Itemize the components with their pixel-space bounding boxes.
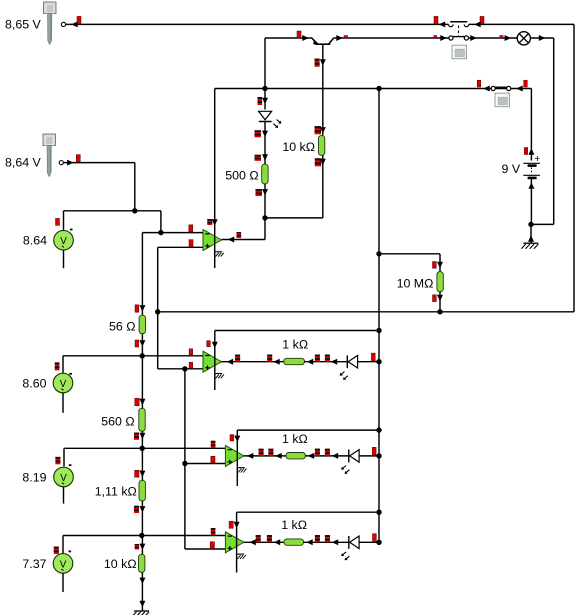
wire from W3 corner down to battery B1 positive: [524, 89, 534, 161]
wire node B2 vertical x=184.9 from U2 + row down to U4 + corner: [182, 369, 187, 549]
svg-text:7.37: 7.37: [22, 557, 46, 571]
resistor R2 10 kilohm: [318, 136, 324, 156]
label 10 Mohm: [397, 277, 434, 291]
wire to op-amp U3 non-inverting input: [185, 456, 226, 463]
wire from R2 down and left to node A: [265, 155, 326, 218]
wire op-amp U1 non-inverting input from node B: [158, 240, 203, 248]
LED D1 light arrows: [273, 120, 281, 128]
label 1,11 kohm: [95, 484, 137, 498]
svg-text:V: V: [60, 379, 67, 390]
wire from lamp L1 to right corner: [530, 35, 553, 41]
op-amp U3: [225, 430, 379, 466]
resistor R8 1 kilohm: [284, 358, 305, 364]
svg-text:8,65 V: 8,65 V: [5, 18, 42, 32]
label 8.19: [22, 470, 46, 484]
voltmeter M3: [54, 467, 74, 487]
switch S1 link (dashed): [458, 26, 460, 37]
svg-text:9 V: 9 V: [502, 162, 521, 176]
wire node A down to op-amp U1 output: [222, 218, 266, 243]
resistor R9 1 kilohm: [286, 453, 305, 459]
label 560 ohm: [101, 414, 134, 428]
wire W1 vertical right edge down to node row: [573, 24, 575, 311]
wire from Q1 collector to switch S1 contact B: [334, 35, 449, 41]
label 10 kohm (R7): [104, 557, 137, 571]
svg-text:V: V: [60, 473, 67, 484]
wire W2 emitter row from LED branch corner to transistor Q1: [265, 31, 312, 41]
svg-text:10 MΩ: 10 MΩ: [397, 277, 434, 291]
resistor R10 1 kilohm: [284, 539, 304, 545]
voltmeter M4 bottom stub: [62, 573, 64, 592]
wire from R1 down to node A junction: [256, 184, 269, 221]
resistor R4 56 ohm: [139, 315, 145, 334]
push switch S1 contact B (closed): [449, 36, 469, 40]
wire chain node2 to voltmeter M2: [55, 356, 142, 375]
voltmeter M1: [54, 230, 74, 250]
wire from R5 to chain node 3: [134, 431, 145, 451]
resistor R1 500 ohm: [262, 164, 268, 184]
push switch S2 (closed): [477, 80, 527, 91]
label 500 ohm: [225, 169, 258, 183]
op-amp U4: [225, 512, 379, 553]
op-amp U4 negative supply stub and mini ground: [237, 553, 246, 573]
probe P2 (8,64 V test probe): [43, 134, 56, 177]
svg-text:56 Ω: 56 Ω: [109, 319, 136, 333]
voltmeter M2 bottom stub: [62, 393, 64, 413]
svg-text:8.60: 8.60: [22, 376, 46, 390]
op-amp U2 negative supply stub and mini ground: [215, 372, 224, 390]
push-to-break switch S1 contact A (closed): [449, 22, 469, 27]
op-amp U1: [203, 89, 222, 251]
diode D4 light arrows: [341, 552, 349, 560]
voltmeter M2: [53, 373, 73, 393]
svg-text:500 Ω: 500 Ω: [225, 169, 258, 183]
wire from diode D4 to bus node: [359, 534, 382, 545]
wire to op-amp U4 non-inverting input: [185, 542, 226, 549]
op-amp U2: [203, 331, 379, 373]
label 8.60: [22, 376, 46, 390]
wire chain node4 to op-amp U4 inverting input: [142, 528, 226, 536]
wire from probe P2 node to op-amp U1 inverting input: [142, 225, 203, 236]
resistor R5 560 ohm: [139, 408, 145, 431]
label 9 V: [502, 162, 521, 176]
label 10 kilohm (R2): [282, 140, 315, 154]
svg-text:V: V: [60, 559, 67, 570]
switch S1 push button: [452, 45, 467, 59]
voltmeter M1 connection: [56, 211, 73, 231]
terminal of probe P2: [59, 161, 63, 165]
wire vertical x=553.7 down to battery negative node: [531, 38, 554, 224]
wire from R4 to chain node 2: [135, 334, 145, 359]
wire chain node2 to op-amp U2 inverting input: [142, 349, 203, 356]
wire from R8 to diode D2: [304, 355, 347, 365]
ground (earth) of resistor chain: [132, 611, 149, 615]
wire chain node2 to node3 through R5: [135, 356, 146, 409]
label 1 kohm (R8): [282, 338, 308, 352]
wire op-amp U2 output row: [222, 355, 285, 365]
lamp L1: [517, 32, 530, 45]
wire from ground node to earth: [528, 224, 534, 243]
label 7.37: [22, 557, 46, 571]
svg-text:8,64 V: 8,64 V: [5, 156, 42, 170]
op-amp U3 negative supply stub and mini ground: [237, 466, 246, 486]
wire W3 base row y=88.5 from op-amp U1 supply corner: [215, 86, 532, 91]
ground (earth) of battery circuit: [521, 243, 538, 249]
diode D2 light arrows: [340, 372, 348, 380]
wire bus vertical x=379 from W3 down to diode D4 row: [376, 89, 381, 543]
wire chain node3 to node4 through R6: [135, 448, 146, 480]
wire W1 right segment to corner: [469, 16, 574, 27]
wire W1 top from probe P1 to switch S1: [66, 16, 449, 27]
wire from R9 to diode D3: [305, 449, 348, 459]
wire from S1 to lamp L1: [469, 35, 518, 41]
wire from R7 to earth: [139, 572, 145, 611]
voltmeter M3 bottom stub: [63, 487, 65, 504]
diode D2 (LED): [347, 355, 357, 368]
wire node B vertical (op-amp + inputs) from U1 to U2: [155, 247, 160, 368]
svg-text:1,11 kΩ: 1,11 kΩ: [95, 484, 137, 498]
wire W5 row y=311.8 to right edge: [158, 309, 574, 314]
wire from battery B1 negative to ground node: [528, 179, 534, 227]
svg-text:560 Ω: 560 Ω: [101, 414, 134, 428]
svg-text:1 kΩ: 1 kΩ: [282, 338, 308, 352]
wire from diode D3 to bus node: [359, 447, 382, 458]
label 8,64 V: [5, 156, 42, 170]
diode D3 (LED): [349, 450, 359, 463]
probe P1 (8,65 V test probe): [44, 2, 57, 45]
wire from probe P2 right and down: [64, 155, 135, 211]
resistor R6 1,11 kilohm: [139, 480, 145, 501]
label 1 kohm (R10): [281, 518, 307, 532]
resistor R7 10 kilohm: [139, 554, 145, 572]
svg-text:1 kΩ: 1 kΩ: [281, 518, 307, 532]
switch S2 push button: [495, 93, 510, 107]
svg-text:10 kΩ: 10 kΩ: [282, 140, 315, 154]
wire node B corner to op-amp U2 non-inverting input: [158, 362, 203, 371]
wire resistor chain top from U1 inverting node down to R4: [135, 233, 145, 316]
wire chain node4 to voltmeter M4: [54, 536, 142, 555]
wire from diode D2 to bus node: [358, 353, 382, 364]
svg-text:8.64: 8.64: [23, 234, 47, 248]
wire from LED D1 to resistor R1: [255, 122, 269, 165]
diode D4 (LED): [349, 536, 359, 549]
label 56 ohm: [109, 319, 136, 333]
wire LED branch vertical from W2 corner down to node A: [258, 38, 269, 110]
diode D3 light arrows: [341, 466, 349, 474]
wire W4 voltmeter M1 row: [64, 208, 161, 233]
voltmeter M1 bottom stub: [63, 250, 65, 268]
label 8,65 V: [5, 18, 42, 32]
wire chain node3 to voltmeter M3: [55, 448, 142, 466]
wire op-amp U4 output row: [244, 535, 284, 545]
svg-text:1 kΩ: 1 kΩ: [282, 432, 308, 446]
wire from R3 to W5 row: [433, 292, 444, 312]
LED D1: [259, 111, 272, 121]
wire chain node3 to op-amp U3 inverting input: [142, 441, 225, 449]
wire from bus to resistor R3 10 Mohm: [379, 254, 443, 272]
wire Q1 base vertical down to resistor R2: [315, 44, 326, 135]
svg-text:8.19: 8.19: [22, 470, 46, 484]
wire from R6 to chain node 4: [134, 501, 145, 538]
op-amp U1 negative supply stub and mini ground: [215, 251, 224, 269]
label 1 kohm (R9): [282, 432, 308, 446]
transistor Q1 (PNP, base down): [312, 38, 334, 44]
wire chain node4 to R7: [135, 536, 146, 555]
battery B1 9 V: [523, 153, 540, 178]
voltmeter M4: [53, 554, 73, 574]
wire op-amp U3 output row: [244, 449, 286, 459]
wire from R10 to diode D4: [304, 535, 349, 545]
resistor R3 10 Mohm: [437, 272, 443, 292]
label 8.64: [23, 234, 47, 248]
svg-text:10 kΩ: 10 kΩ: [104, 557, 137, 571]
svg-text:V: V: [60, 236, 67, 247]
terminal of probe P1: [61, 22, 65, 26]
